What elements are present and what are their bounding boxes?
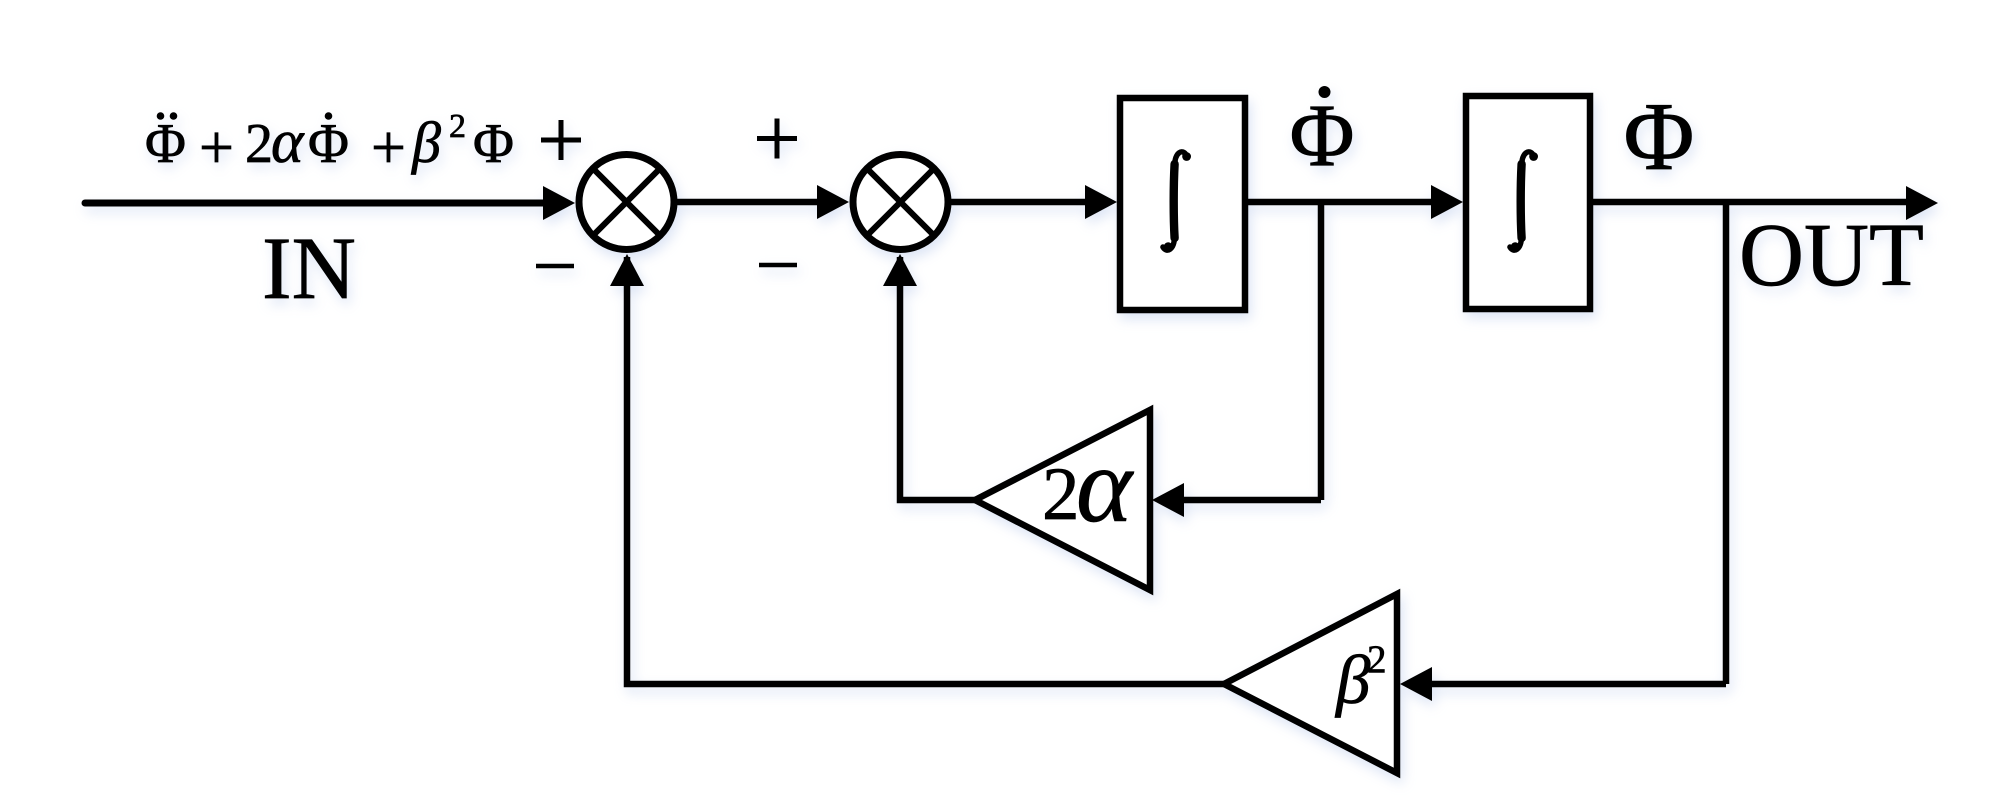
svg-text:2: 2 bbox=[1367, 638, 1387, 681]
gain block b2 (triangle) bbox=[1224, 594, 1397, 773]
wire 2a gain to summer S2 bbox=[900, 257, 977, 500]
arrowhead into integrator 1 bbox=[1085, 185, 1117, 219]
wire into b2 gain bbox=[1430, 681, 1726, 688]
svg-text:Φ: Φ bbox=[308, 113, 349, 175]
svg-text:IN: IN bbox=[262, 220, 356, 318]
wire integrator1 to integrator2 bbox=[1248, 199, 1434, 206]
wire into 2a gain bbox=[1182, 497, 1321, 504]
plus sign at summer S1 bbox=[541, 120, 581, 160]
minus sign at summer S2 bbox=[759, 263, 797, 268]
arrowhead into gain b2 bbox=[1400, 667, 1432, 701]
svg-text:α: α bbox=[271, 108, 305, 176]
minus sign at summer S1 bbox=[536, 264, 574, 269]
arrowhead into summer S2 bbox=[817, 185, 849, 219]
summer S1 (circle with X) bbox=[579, 155, 674, 250]
svg-text:Φ: Φ bbox=[473, 113, 514, 175]
svg-text:Φ: Φ bbox=[1289, 87, 1354, 185]
arrowhead into integrator 2 bbox=[1431, 185, 1463, 219]
plus sign at summer S2 bbox=[757, 119, 797, 159]
svg-text:α: α bbox=[1076, 427, 1134, 545]
svg-text:Φ: Φ bbox=[145, 113, 186, 175]
svg-text:β: β bbox=[411, 110, 441, 175]
wire branch Phi-dot down bbox=[1318, 202, 1325, 500]
summer S2 (circle with X) bbox=[853, 155, 948, 250]
svg-text:+: + bbox=[199, 114, 234, 182]
svg-text:2: 2 bbox=[449, 108, 466, 145]
wire integrator2 to output bbox=[1593, 199, 1909, 206]
svg-text:2: 2 bbox=[245, 113, 273, 175]
svg-text:Φ: Φ bbox=[1624, 83, 1695, 190]
svg-text:β: β bbox=[1334, 642, 1371, 718]
wire branch OUT down bbox=[1723, 203, 1730, 684]
arrowhead up into summer S2 bbox=[883, 254, 917, 286]
svg-text:OUT: OUT bbox=[1739, 206, 1924, 305]
arrowhead into summer S1 bbox=[543, 186, 575, 220]
node label equation bbox=[145, 108, 514, 182]
arrowhead into gain 2a bbox=[1152, 483, 1184, 517]
integrator block 2 bbox=[1466, 96, 1590, 309]
arrowhead up into summer S1 bbox=[610, 254, 644, 286]
arrowhead output OUT bbox=[1906, 186, 1938, 220]
svg-text:2: 2 bbox=[1042, 453, 1080, 536]
gain block 2a (triangle) bbox=[975, 410, 1150, 590]
svg-text:+: + bbox=[371, 114, 406, 182]
wire S1 to S2 bbox=[677, 199, 820, 206]
node label Phi-dot bbox=[1289, 86, 1354, 185]
wire input line IN bbox=[85, 200, 546, 207]
integrator block 1 bbox=[1120, 98, 1245, 310]
wire b2 gain to summer S1 bbox=[627, 257, 1224, 684]
wire S2 to integrator 1 bbox=[951, 199, 1088, 206]
